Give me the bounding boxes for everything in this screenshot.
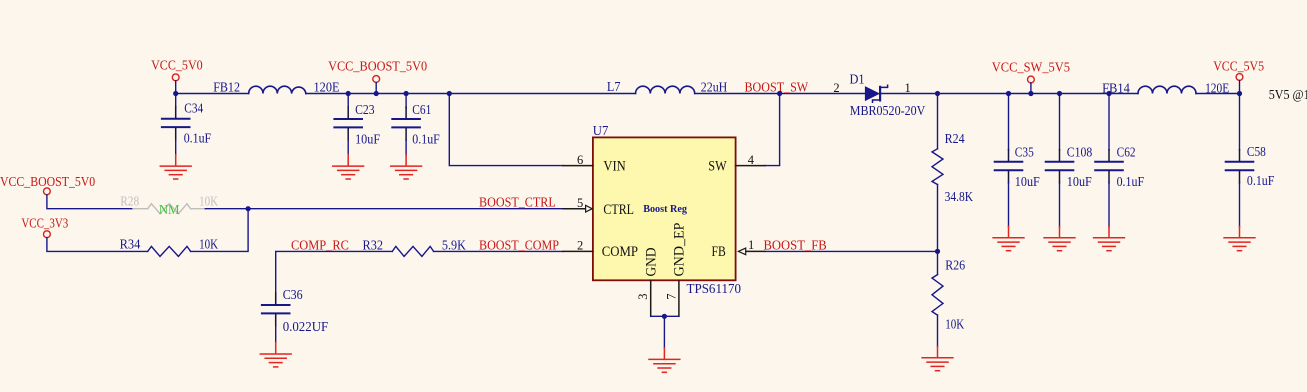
svg-text:10K: 10K [199,236,218,251]
wire COMP_RC corner to R32 [276,251,393,304]
svg-text:U7: U7 [593,123,609,138]
svg-text:C23: C23 [355,102,375,117]
svg-text:BOOST_FB: BOOST_FB [764,238,827,253]
svg-text:VIN: VIN [603,158,626,174]
ground C58 [1224,226,1255,250]
svg-text:R24: R24 [945,131,965,146]
svg-text:BOOST_COMP: BOOST_COMP [479,238,559,253]
capacitor C62 [1095,94,1144,227]
svg-text:C62: C62 [1117,144,1136,159]
resistor R26 [932,251,965,346]
power pin VCC_BOOST_5V0 [328,58,427,82]
svg-text:SW: SW [708,158,727,174]
svg-text:10uF: 10uF [1067,174,1092,189]
svg-text:NM: NM [159,202,180,217]
wire rail to L7 [449,93,635,95]
svg-text:COMP: COMP [602,244,638,260]
svg-text:C34: C34 [184,101,203,116]
resistor R24 [932,94,973,252]
node C23 junction [346,91,351,96]
wire diode to R24 node [881,93,938,95]
node VCC_SW_5V5 junction [1028,91,1033,96]
wire VCC_5V5 pin down [1239,81,1241,94]
svg-text:VCC_3V3: VCC_3V3 [21,215,68,230]
svg-text:R28: R28 [120,193,139,208]
wire pin to R28 [47,195,133,209]
capacitor C23 [334,94,380,156]
wire C62 to FB14 [1109,93,1138,95]
IC U7 body [593,123,741,297]
ferrite bead FB14 [1102,80,1229,95]
pin 1 FB [712,238,766,260]
node C108 junction [1057,91,1062,96]
inductor L7 [607,79,728,95]
wire C108 to C62 [1060,93,1110,95]
resistor R34 [120,236,219,256]
svg-text:FB: FB [712,244,726,260]
svg-text:7: 7 [665,294,679,300]
capacitor C61 [392,94,440,156]
svg-text:COMP_RC: COMP_RC [291,238,349,253]
wire R34 to junction riser [191,209,249,252]
capacitor C36 [262,287,329,343]
svg-text:VCC_SW_5V5: VCC_SW_5V5 [992,60,1070,75]
svg-text:5: 5 [577,196,583,210]
node R24 top junction [935,91,940,96]
wire GND junction to ground [663,316,665,348]
svg-text:D1: D1 [850,72,865,87]
svg-text:C61: C61 [412,102,431,117]
power pin VCC_3V3 [21,215,68,237]
diode D1 [833,72,925,118]
svg-text:R26: R26 [945,258,965,273]
svg-text:34.8K: 34.8K [945,189,974,204]
wire pin to C108 [1031,93,1060,95]
capacitor C108 [1046,94,1093,227]
ground C108 [1044,226,1075,250]
svg-text:10K: 10K [199,193,218,208]
node VCC_5V5 junction [1237,91,1242,96]
power pin VCC_BOOST_5V0 left [0,174,95,195]
svg-text:0.1uF: 0.1uF [184,131,212,146]
svg-text:3: 3 [636,294,650,300]
wire R28 to junction [205,208,248,210]
wire VCC_BOOST_5V0 pin to rail [375,83,377,94]
capacitor C34 [162,94,212,156]
ground C34 [160,155,191,179]
wire rail C34 to FB12 [176,93,249,95]
wire VCC_5V0 pin to rail [175,81,177,94]
node C35 junction [1006,91,1011,96]
svg-text:4: 4 [748,153,755,167]
capacitor C58 [1226,94,1275,227]
svg-text:BOOST_CTRL: BOOST_CTRL [479,195,556,210]
svg-text:VCC_BOOST_5V0: VCC_BOOST_5V0 [0,174,95,189]
svg-text:0.1uF: 0.1uF [1117,174,1145,189]
svg-text:BOOST_SW: BOOST_SW [745,80,809,95]
svg-text:5V5 @1: 5V5 @1 [1269,87,1307,102]
svg-text:GND: GND [643,247,659,276]
svg-text:120E: 120E [314,80,340,95]
svg-text:TPS61170: TPS61170 [687,282,742,297]
wire C23 node to pin [348,93,376,95]
pin 3 GND [636,247,659,316]
pin 5 CTRL [563,196,634,218]
svg-text:L7: L7 [607,79,621,94]
node FB junction [935,249,940,254]
wire R32 to COMP pin [434,250,563,252]
svg-text:CTRL: CTRL [603,202,634,218]
ground C62 [1094,226,1125,250]
ground C36 [260,343,291,367]
svg-text:C108: C108 [1067,144,1093,159]
node VCC_BOOST_5V0 junction [374,91,379,96]
wire pin to R34 [47,238,148,252]
ground R26 [922,346,953,370]
ferrite bead FB12 [213,80,339,95]
wire C61 node to VIN drop node [406,93,449,95]
svg-text:0.1uF: 0.1uF [412,131,440,146]
node C61 junction [404,91,409,96]
wire junction to CTRL pin [248,208,563,210]
wire VIN drop vertical [449,94,563,166]
wire FB12 to C23 node [306,93,348,95]
wire VCC_SW_5V5 pin to rail [1030,83,1032,94]
wire FB pin to R24/R26 node [765,250,938,252]
wire C35 to pin [1009,93,1031,95]
svg-text:FB12: FB12 [213,80,240,95]
power pin VCC_5V0 [151,58,203,81]
svg-text:5.9K: 5.9K [442,238,466,253]
pin 2 COMP [563,238,638,260]
svg-text:1: 1 [905,81,911,95]
ground C23 [333,155,364,179]
node VIN drop junction [447,91,452,96]
node C62 junction [1106,91,1111,96]
svg-text:C58: C58 [1247,144,1266,159]
svg-text:Boost Reg: Boost Reg [643,203,687,215]
svg-text:2: 2 [833,81,839,95]
ground U7 [649,348,680,372]
node VCC_5V0/C34 junction [173,91,178,96]
node CTRL junction [246,206,251,211]
svg-text:22uH: 22uH [701,80,728,95]
svg-text:FB14: FB14 [1102,80,1130,95]
resistor R28 (NM, not mounted) [120,193,218,216]
node GND junction [662,314,667,319]
wire FB14 to VCC_5V5 corner [1196,93,1240,95]
ground C35 [993,226,1024,250]
pin 7 GND_EP [665,223,688,317]
svg-text:VCC_5V5: VCC_5V5 [1213,59,1264,74]
node BOOST_SW junction [777,91,782,96]
svg-text:GND_EP: GND_EP [672,223,688,277]
pin 6 VIN [563,153,626,174]
svg-text:10uF: 10uF [1015,174,1040,189]
wire GND pins join [651,315,679,317]
svg-text:MBR0520-20V: MBR0520-20V [850,103,926,118]
svg-text:VCC_5V0: VCC_5V0 [151,58,203,73]
svg-text:C35: C35 [1015,144,1034,159]
svg-text:C36: C36 [283,287,303,302]
power pin VCC_SW_5V5 [992,60,1070,83]
svg-text:VCC_BOOST_5V0: VCC_BOOST_5V0 [328,58,427,73]
wire L7 to diode [695,93,866,95]
wire pin to C61 node [376,93,406,95]
svg-text:R32: R32 [363,238,384,253]
resistor R32 [363,238,467,257]
svg-text:R34: R34 [120,236,141,251]
pin 4 SW [708,153,765,174]
svg-text:2: 2 [577,238,583,252]
svg-text:10uF: 10uF [355,131,380,146]
wire rail to C35 [938,93,1009,95]
power pin VCC_5V5 [1213,59,1264,81]
capacitor C35 [995,94,1041,227]
svg-text:10K: 10K [945,316,964,331]
svg-text:0.022UF: 0.022UF [283,319,329,334]
wire BOOST_SW to SW pin [765,94,780,166]
svg-text:1: 1 [748,238,754,252]
ground C61 [391,155,422,179]
svg-text:0.1uF: 0.1uF [1247,173,1275,188]
svg-text:6: 6 [577,153,583,167]
